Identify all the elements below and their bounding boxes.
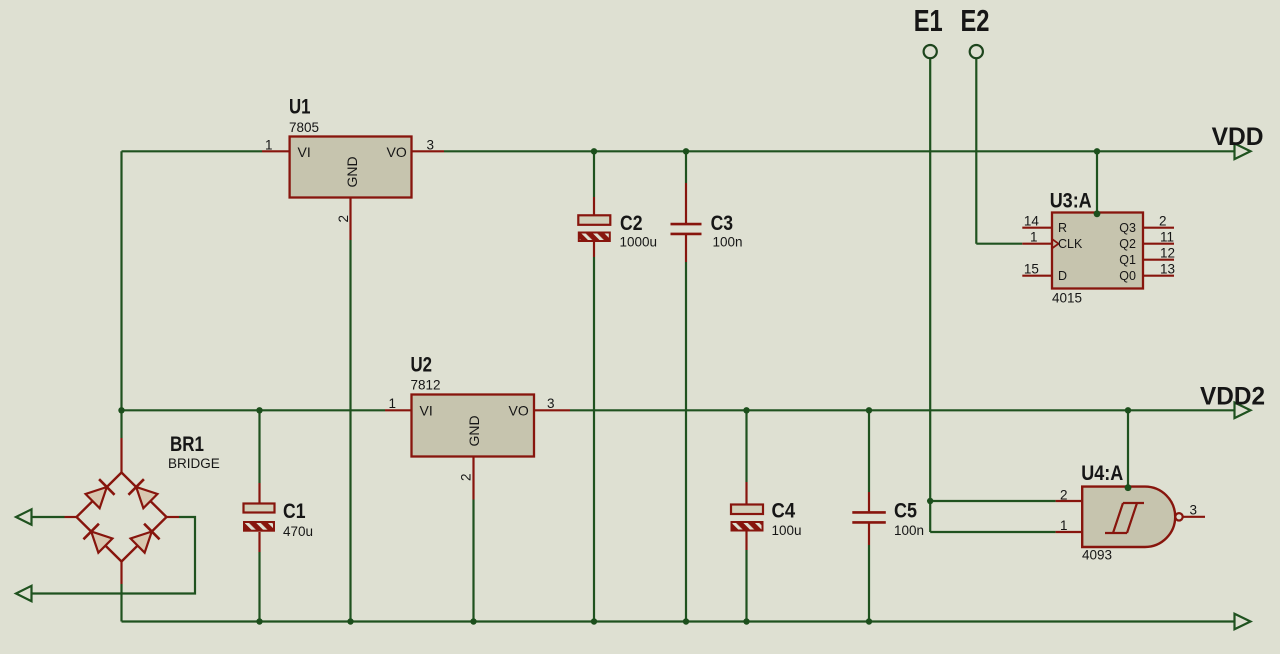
capacitor C2 (polarised) — [578, 197, 610, 257]
svg-text:4015: 4015 — [1052, 291, 1082, 306]
svg-text:100u: 100u — [772, 523, 802, 538]
node junction ground rail U1 — [347, 618, 353, 624]
svg-text:VDD2: VDD2 — [1200, 383, 1265, 411]
node junction top rail C3 — [683, 148, 689, 154]
svg-text:1: 1 — [389, 396, 397, 411]
U3 clock chevron — [1052, 239, 1059, 248]
wire input terminal 1 to bridge left — [32, 516, 65, 518]
svg-text:3: 3 — [547, 396, 555, 411]
terminal E1 circle — [924, 45, 937, 58]
wire input terminal 2 run — [32, 517, 196, 594]
svg-text:U1: U1 — [289, 96, 311, 119]
svg-text:1: 1 — [1030, 230, 1038, 245]
diode D3 (bottom-left edge) — [83, 524, 113, 554]
svg-text:7805: 7805 — [289, 120, 319, 135]
power terminal VDD2 arrow — [1235, 403, 1251, 419]
svg-text:3: 3 — [427, 138, 435, 153]
node junction E1 branch — [927, 498, 933, 504]
svg-text:U4:A: U4:A — [1081, 462, 1123, 485]
svg-text:Q0: Q0 — [1119, 269, 1136, 283]
wire U4 power drop from VDD2 rail — [1127, 410, 1129, 487]
svg-text:100n: 100n — [713, 235, 743, 250]
svg-text:U2: U2 — [411, 354, 433, 377]
wire C3 top — [685, 151, 687, 183]
node junction ground rail C2 — [591, 618, 597, 624]
svg-text:C4: C4 — [772, 499, 796, 522]
wire C1 bottom to ground rail — [258, 552, 260, 622]
shift register U3:A body — [1022, 213, 1174, 289]
svg-text:1000u: 1000u — [620, 235, 658, 250]
svg-text:R: R — [1058, 221, 1067, 235]
svg-text:GND: GND — [344, 156, 360, 187]
node junction ground rail C3 — [683, 618, 689, 624]
U4 schmitt hysteresis symbol — [1105, 503, 1144, 533]
diode D2 (top-right edge) — [128, 479, 158, 509]
wire E2 vertical — [975, 58, 977, 244]
wire top rail right segment (VDD net) — [444, 150, 1235, 152]
node junction mid rail U4 drop — [1125, 407, 1131, 413]
node junction ground rail U2 — [470, 618, 476, 624]
terminal E2 circle — [970, 45, 983, 58]
wire U2 ground column — [472, 500, 474, 622]
node junction ground rail C4 — [743, 618, 749, 624]
svg-text:1: 1 — [265, 138, 273, 153]
svg-text:470u: 470u — [283, 524, 313, 539]
svg-text:1: 1 — [1060, 518, 1068, 533]
svg-text:C3: C3 — [711, 212, 734, 235]
terminal input arrow 1 — [16, 509, 32, 524]
wire C5 top — [868, 410, 870, 492]
svg-text:CLK: CLK — [1058, 237, 1083, 251]
diode D4 (bottom-right edge) — [130, 524, 160, 554]
power terminal ground rail arrow — [1235, 614, 1251, 630]
wire bridge bottom to ground rail — [120, 584, 122, 622]
wire bottom rail (ground net) — [122, 620, 1235, 622]
node junction ground rail C1 — [256, 618, 262, 624]
node junction ground rail C5 — [866, 618, 872, 624]
svg-text:Q3: Q3 — [1119, 221, 1136, 235]
svg-text:D: D — [1058, 269, 1067, 283]
wire C5 bottom to ground rail — [868, 545, 870, 622]
svg-text:C2: C2 — [620, 212, 643, 235]
svg-text:GND: GND — [466, 415, 482, 446]
svg-text:4093: 4093 — [1082, 548, 1112, 563]
wire U1 ground column — [349, 240, 351, 622]
wire left vertical (DC+ column) — [120, 151, 122, 438]
svg-text:11: 11 — [1160, 230, 1174, 245]
svg-text:12: 12 — [1160, 246, 1175, 261]
capacitor C1 (polarised) — [244, 483, 275, 552]
svg-text:U3:A: U3:A — [1050, 190, 1092, 213]
wire mid rail left segment — [122, 409, 386, 411]
terminal input arrow 2 — [16, 586, 32, 601]
wire E1 branch vertical — [929, 501, 931, 532]
svg-text:VDD: VDD — [1212, 123, 1264, 151]
capacitor C5 — [852, 492, 886, 545]
svg-text:3: 3 — [1190, 503, 1198, 518]
svg-text:C5: C5 — [894, 499, 917, 522]
svg-text:BRIDGE: BRIDGE — [168, 456, 220, 471]
svg-text:BR1: BR1 — [170, 433, 204, 456]
node junction mid rail C5 — [866, 407, 872, 413]
wire C2 bottom to ground rail — [593, 257, 595, 622]
regulator U2 body — [385, 395, 570, 500]
svg-text:C1: C1 — [283, 500, 306, 523]
svg-text:E2: E2 — [961, 3, 990, 38]
svg-text:VI: VI — [298, 144, 311, 160]
capacitor C4 (polarised) — [731, 482, 763, 550]
wire E2 to U3 CLK — [976, 243, 1022, 245]
svg-text:VO: VO — [387, 144, 407, 160]
wire C3 bottom to ground rail — [685, 262, 687, 622]
wire E1 branch to U4 pin1 — [930, 531, 1055, 533]
node junction mid rail C4 — [743, 407, 749, 413]
U4 output bubble — [1175, 513, 1182, 520]
wire C1 top — [258, 410, 260, 483]
svg-text:2: 2 — [1159, 214, 1167, 229]
svg-text:13: 13 — [1160, 262, 1175, 277]
wire E1 vertical — [929, 58, 931, 501]
wire mid rail right segment (VDD2 net) — [570, 409, 1235, 411]
node junction mid rail C1 — [256, 407, 262, 413]
svg-text:VI: VI — [420, 403, 433, 419]
node junction top rail U3 drop — [1094, 148, 1100, 154]
svg-text:2: 2 — [336, 215, 351, 223]
wire C4 top — [745, 410, 747, 482]
svg-text:Q2: Q2 — [1119, 237, 1136, 251]
svg-text:VO: VO — [509, 403, 529, 419]
node junction U3 top edge — [1094, 210, 1101, 217]
svg-text:E1: E1 — [914, 3, 943, 38]
wire top rail left segment — [122, 150, 263, 152]
regulator U1 body — [262, 137, 444, 241]
svg-text:15: 15 — [1024, 262, 1039, 277]
node junction U4 top edge — [1125, 484, 1132, 491]
wire C4 bottom to ground rail — [745, 550, 747, 622]
wire C2 top — [593, 151, 595, 197]
power terminal VDD arrow — [1235, 144, 1251, 160]
NAND gate U4:A body — [1056, 487, 1205, 547]
wire E1 branch to U4 pin2 — [930, 500, 1055, 502]
capacitor C3 — [671, 183, 702, 262]
svg-text:7812: 7812 — [411, 378, 441, 393]
svg-text:2: 2 — [459, 473, 474, 481]
svg-text:Q1: Q1 — [1119, 253, 1136, 267]
node junction top rail C2 — [591, 148, 597, 154]
diode D1 (left-top edge) — [85, 479, 115, 509]
bridge rectifier BR1 — [65, 438, 180, 584]
svg-text:2: 2 — [1060, 488, 1068, 503]
wire U3 power drop from VDD rail — [1096, 151, 1098, 214]
svg-text:100n: 100n — [894, 523, 924, 538]
node junction mid rail left corner — [118, 407, 124, 413]
svg-text:14: 14 — [1024, 214, 1040, 229]
